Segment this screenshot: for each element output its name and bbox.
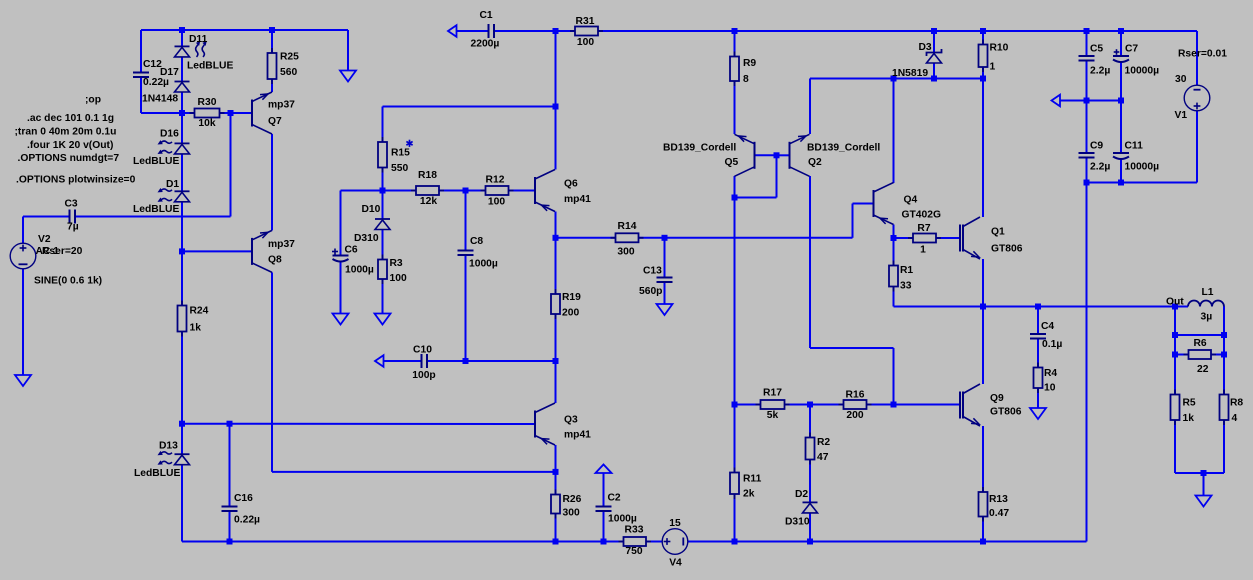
wire base node to collector [735,197,777,199]
transistor Q5 [735,134,755,176]
capacitor C2 [596,507,612,512]
wire R1 bottom lead [893,287,895,307]
junction [980,304,986,310]
wire C16 top lead [229,424,231,507]
svg-text:Q7: Q7 [268,116,282,127]
resistor R24 [178,301,187,337]
svg-text:1N4148: 1N4148 [142,94,178,105]
svg-text:D10: D10 [362,204,381,215]
wire Q3 base row [182,423,535,425]
transistor Q4 [874,183,894,225]
wire C16 bottom lead [229,511,231,542]
wire R3 bottom lead [382,279,384,314]
junction [1084,98,1090,104]
transistor Q3 [535,403,555,445]
wire D10-R3 [382,230,384,260]
wire Q4 collector up [893,79,895,184]
wire D11-D17 [181,57,183,82]
svg-text:1000µ: 1000µ [608,514,637,525]
svg-text:10000µ: 10000µ [1125,66,1160,77]
svg-text:33: 33 [900,281,912,292]
wire Q2 emitter up [809,79,811,135]
wire bottom rail right [688,541,1087,543]
svg-text:C10: C10 [413,345,432,356]
svg-text:C4: C4 [1041,321,1054,332]
junction [463,188,469,194]
wire R10 top lead [982,31,984,45]
wire D3 row [810,78,983,80]
junction [774,152,780,158]
capacitor C13 [657,278,673,283]
schottky diode D3 [927,49,942,63]
wire Q9 emitter to R13 [982,426,984,492]
svg-text:R1: R1 [900,265,913,276]
svg-text:C7: C7 [1125,44,1138,55]
junction [228,110,234,116]
wire D13 top lead [181,424,183,455]
wire R30 row / Q7 base [182,112,252,114]
wire D17 to node R30 [181,91,183,143]
svg-text:15: 15 [669,518,681,529]
resistor R10 [979,40,988,73]
wire C12 bottom lead [140,78,142,114]
junction [891,402,897,408]
wire top rail [495,30,1198,32]
svg-text:100: 100 [390,273,407,284]
svg-text:BD139_Cordell: BD139_Cordell [663,143,736,154]
wire R15 bottom lead [382,168,384,191]
transistor Q7 [252,92,272,134]
wire D3 top lead [933,31,935,53]
junction [179,248,185,254]
svg-text:10: 10 [1044,383,1056,394]
capacitor C8 [458,251,474,256]
resistor R2 [806,433,815,465]
wire top-left rail [141,29,348,31]
svg-text:Q8: Q8 [268,255,282,266]
wire C5 top lead [1086,31,1088,56]
wire C9 bottom lead [1086,158,1088,183]
svg-text:C11: C11 [1125,141,1144,152]
resistor R11 [730,468,739,500]
wire C2 bottom lead [603,511,605,542]
svg-text:R24: R24 [190,306,209,317]
wire R7 left [894,237,914,239]
capacitor C12 [133,73,149,78]
svg-text:5k: 5k [767,410,779,421]
svg-text:D2: D2 [795,489,808,500]
wire Q5 collector down to R17 node [734,176,736,405]
wire ground stem out [1203,473,1205,496]
svg-text:560: 560 [280,67,297,78]
svg-text:30: 30 [1175,74,1187,85]
svg-text:D3: D3 [919,42,932,53]
wire R16 left [810,404,844,406]
svg-text:2k: 2k [743,489,755,500]
svg-text:LedBLUE: LedBLUE [133,156,179,167]
wire R33-V4 [646,541,663,543]
ground R4 [1030,408,1046,419]
resistor R16 [839,400,872,409]
resistor R5 [1171,390,1180,426]
wire C1 left [457,30,489,32]
svg-text:0.22µ: 0.22µ [143,77,169,88]
wire R10 bottom lead [982,67,984,79]
junction [662,235,668,241]
resistor R30 [190,109,225,118]
svg-text:C9: C9 [1090,141,1103,152]
svg-text:LedBLUE: LedBLUE [134,468,180,479]
svg-text:D310: D310 [785,517,810,528]
junction [1084,180,1090,186]
voltage source V1 [1184,85,1210,111]
svg-text:C3: C3 [65,199,78,210]
svg-text:C2: C2 [608,493,621,504]
junction [553,539,559,545]
junction [1118,98,1124,104]
LED D16 [158,140,190,154]
svg-text:R3: R3 [390,258,403,269]
wire negative rail vertical [1086,183,1088,542]
junction [380,188,386,194]
capacitor C11 [1113,153,1129,159]
wire R17 right [785,404,811,406]
svg-text:R9: R9 [743,58,756,69]
svg-text:GT806: GT806 [990,407,1022,418]
svg-text:C6: C6 [345,245,358,256]
wire R4 bottom lead [1037,388,1039,408]
resistor R31 [570,27,603,36]
svg-text:R26: R26 [563,494,582,505]
svg-text:300: 300 [563,508,580,519]
junction [1035,304,1041,310]
wire V2 top lead [22,217,24,244]
wire D1 to Q8 base node [181,203,183,252]
svg-text:R31: R31 [576,16,595,27]
junction [553,28,559,34]
svg-text:V4: V4 [669,558,682,569]
junction [1172,332,1178,338]
LED D13 [158,451,190,465]
wire Q2 collector row [810,347,894,349]
wire D10 top lead [382,191,384,220]
wire mid supply row [1060,100,1121,102]
svg-text:0.1µ: 0.1µ [1042,339,1062,350]
svg-text:.OPTIONS numdgt=7: .OPTIONS numdgt=7 [18,153,120,164]
junction [732,28,738,34]
LED D11 [175,41,207,57]
wire R8 bottom lead [1223,420,1225,473]
wire C4 top lead [1037,307,1039,335]
wire to Q1 collector [982,79,984,218]
wire C6 top lead [340,191,342,256]
svg-text:R4: R4 [1044,368,1057,379]
svg-text:100p: 100p [412,370,435,381]
inductor L1 [1188,301,1224,307]
svg-text:1N5819: 1N5819 [892,68,928,79]
wire D3 bottom lead [933,63,935,79]
wire R2 top lead [809,405,811,438]
wire R5 bottom lead [1174,420,1176,473]
svg-text:2200µ: 2200µ [471,39,500,50]
wire C10 right to R19 node [427,360,556,362]
ground R3 [375,314,391,325]
junction [179,110,185,116]
wire R26 bottom lead [555,514,557,542]
ground C13 [657,304,673,315]
capacitor C5 [1079,56,1095,61]
junction [732,402,738,408]
junction [553,235,559,241]
svg-text:V2: V2 [38,234,51,245]
wire V1 bottom lead [1196,111,1198,183]
resistor R18 [411,186,444,195]
wire R26 top lead [555,472,557,495]
capacitor C4 [1030,334,1046,339]
plus sign C7 [1114,49,1120,55]
wire C10 left [383,360,422,362]
wire R19 bottom lead [555,314,557,361]
svg-text:C16: C16 [234,493,253,504]
svg-text:Q3: Q3 [564,415,578,426]
LED D1 [158,188,190,202]
wire Q5 base [755,154,777,156]
junction [179,27,185,33]
junction [179,421,185,427]
svg-text:R13: R13 [989,494,1008,505]
wire R14 right to Q4 corner [639,237,853,239]
transistor Q1 [960,217,980,259]
wire to Q9 base node [893,348,895,405]
svg-text:200: 200 [846,410,863,421]
wire R5 column top [1174,307,1176,395]
junction [931,76,937,82]
svg-text:R33: R33 [625,525,644,536]
svg-text:V1: V1 [1175,110,1188,121]
svg-text:Out: Out [1166,297,1184,308]
wire R15 top lead [382,107,384,143]
junction [980,76,986,82]
junction [732,195,738,201]
wire C12 top lead [140,30,142,73]
wire Q2 collector down [809,176,811,348]
svg-text:.OPTIONS plotwinsize=0: .OPTIONS plotwinsize=0 [16,175,136,186]
wire C11 top lead [1120,101,1122,154]
wire C8 top lead [465,191,467,251]
svg-text:550: 550 [391,163,408,174]
wire V1 top lead [1196,31,1198,86]
transistor Q9 [960,384,980,426]
svg-text:Q6: Q6 [564,179,578,190]
svg-text:1k: 1k [1183,413,1195,424]
svg-text:Q2: Q2 [808,157,822,168]
junction [1172,304,1178,310]
svg-text:.ac dec 101 0.1 1g: .ac dec 101 0.1 1g [27,113,114,124]
wire C3 row left [23,216,70,218]
wire Q4 emitter [893,225,895,239]
svg-text:22: 22 [1197,364,1209,375]
capacitor C3 [70,210,76,224]
wire Out to L1 [1175,306,1188,308]
resistor R26 [551,490,560,519]
svg-text:12k: 12k [420,196,437,207]
junction [732,539,738,545]
wire Q7 collector - Q8 emitter [271,134,273,230]
wire R11 bottom lead [734,494,736,542]
resistor R33 [619,537,652,546]
wire input vertical [230,113,232,217]
svg-text:L1: L1 [1202,287,1214,298]
wire Q8 collector down [271,272,273,472]
resistor R14 [611,233,644,242]
wire D2 bottom lead [809,513,811,542]
svg-text:R30: R30 [198,97,217,108]
svg-text:GT402G: GT402G [902,210,942,221]
svg-text:R11: R11 [743,474,762,485]
svg-text:D310: D310 [354,233,379,244]
resistor R8 [1220,390,1229,426]
wire C9 top lead [1086,101,1088,154]
wire R25-Q7 emitter [271,30,273,92]
junction [807,539,813,545]
svg-text:R8: R8 [1230,398,1243,409]
capacitor C16 [222,507,238,512]
wire D16-D1 [181,153,183,191]
svg-text:10k: 10k [198,118,215,129]
svg-text:R2: R2 [817,437,830,448]
wire R9 to Q5 emitter [734,81,736,134]
resistor R6 [1184,350,1217,359]
svg-text:C1: C1 [480,10,493,21]
svg-text:560p: 560p [639,286,662,297]
wire Q6 emitter [555,212,557,238]
svg-text:Q1: Q1 [991,227,1005,238]
wire C3 row right [75,216,231,218]
junction [601,539,607,545]
junction [1118,180,1124,186]
junction [1201,470,1207,476]
wire R8 column top [1223,307,1225,395]
svg-text:D11: D11 [189,34,208,45]
svg-text:100: 100 [577,37,594,48]
resistor R17 [756,400,790,409]
svg-text:0.47: 0.47 [989,508,1009,519]
wire R13 bottom lead [982,517,984,542]
svg-text:SINE(0 0.6 1k): SINE(0 0.6 1k) [34,276,102,287]
wire to Q6 collector [555,107,557,170]
wire R19 top lead [555,238,557,294]
ground [340,71,356,82]
svg-text:1: 1 [990,62,996,73]
wire C7 top lead [1120,31,1122,56]
junction [227,539,233,545]
svg-text:Q5: Q5 [725,157,739,168]
svg-text:R14: R14 [618,221,637,232]
ground C6 [333,314,349,325]
ground V2 [15,375,31,386]
svg-text:3µ: 3µ [1201,312,1213,323]
svg-text:D1: D1 [166,179,179,190]
resistor R12 [481,186,514,195]
svg-text:R16: R16 [846,390,865,401]
wire load bottom row [1175,472,1224,474]
svg-text:750: 750 [625,546,642,557]
resistor R7 [908,234,941,243]
junction [1084,28,1090,34]
svg-text:Rser=0.01: Rser=0.01 [1178,49,1227,60]
svg-text:200: 200 [562,308,579,319]
svg-text:D13: D13 [159,441,178,452]
power flag left C1 [448,25,457,37]
wire Q4 base vertical [852,204,854,238]
wire C8 bottom lead [465,255,467,361]
junction [807,402,813,408]
svg-text:D16: D16 [160,129,179,140]
diode D17 [175,82,190,93]
svg-text:.four 1K 20 v(Out): .four 1K 20 v(Out) [27,140,113,151]
svg-text:7µ: 7µ [67,222,79,233]
wire Q8 base row [182,250,252,252]
resistor R9 [730,52,739,87]
wire rail to R15 node [555,31,557,107]
svg-text:2.2µ: 2.2µ [1090,66,1110,77]
svg-text:C13: C13 [643,266,662,277]
svg-text:R7: R7 [917,223,930,234]
wire C13 bottom lead [664,282,666,304]
svg-text:R17: R17 [763,388,782,399]
wire C7 bottom lead [1120,62,1122,101]
junction [553,358,559,364]
wire Q8 collector row [272,471,556,473]
wire R2-D2 [809,460,811,503]
svg-text:;op: ;op [85,95,101,106]
junction [980,539,986,545]
svg-text:Rser=20: Rser=20 [42,246,83,257]
svg-text:Q4: Q4 [904,195,918,206]
svg-text:BD139_Cordell: BD139_Cordell [807,143,880,154]
capacitor C1 [489,24,495,38]
wire base node down [776,155,778,197]
svg-text:4: 4 [1232,413,1238,424]
diode D2 [803,502,818,513]
svg-text:mp37: mp37 [268,239,295,250]
svg-text:8: 8 [743,74,749,85]
svg-text:R12: R12 [486,175,505,186]
svg-text:10000µ: 10000µ [1125,162,1160,173]
wire R16 right / Q9 base [867,404,961,406]
capacitor C6 [333,256,349,262]
junction [891,235,897,241]
svg-text:R5: R5 [1183,398,1196,409]
wire output row [894,306,1176,308]
wire R24 bottom lead [181,332,183,424]
wire C5 bottom lead [1086,61,1088,101]
wire C4-R4 [1037,339,1039,368]
junction [1221,352,1227,358]
power flag left supply [1052,95,1061,107]
svg-text:LedBLUE: LedBLUE [133,204,179,215]
svg-text:47: 47 [817,452,829,463]
junction [553,469,559,475]
power flag up C2 [596,465,612,474]
wire to Q9 collector [982,307,984,385]
svg-text:mp41: mp41 [564,430,591,441]
transistor Q2 [790,134,810,176]
voltage source V4 [662,529,688,555]
resistor R1 [889,261,898,292]
asterisk marker [406,140,412,147]
wire R11 top lead [734,405,736,473]
